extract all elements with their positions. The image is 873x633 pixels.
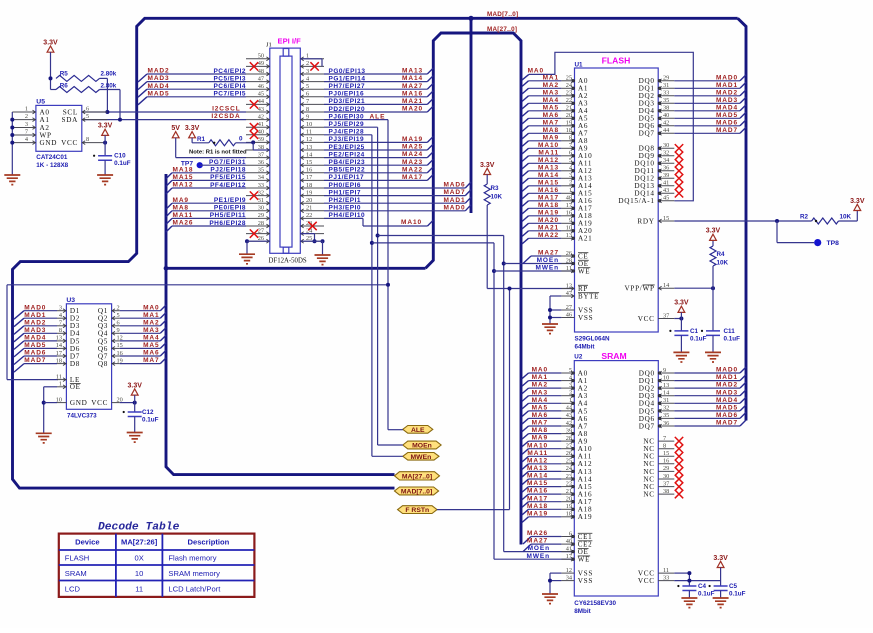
svg-text:MAD5: MAD5 — [148, 90, 170, 97]
J1 pin 36 stub — [246, 164, 270, 166]
svg-text:MA19: MA19 — [538, 209, 559, 216]
svg-text:25: 25 — [566, 458, 572, 465]
svg-text:12: 12 — [566, 282, 572, 289]
SRAM pin A3 (net MA3) — [561, 395, 574, 397]
svg-text:9: 9 — [117, 327, 120, 334]
svg-text:D8: D8 — [70, 360, 80, 368]
FLASH pin A20 (net MA21) — [561, 230, 574, 232]
capacitor C1 — [680, 319, 682, 331]
svg-text:DF12A-50DS: DF12A-50DS — [269, 258, 307, 265]
J1 pin 40 stub — [246, 134, 270, 136]
SRAM NC pin 38 — [658, 493, 674, 495]
ground under J1 right — [315, 255, 331, 265]
svg-text:17: 17 — [566, 553, 572, 560]
net label MA27 at FLASH CE + slash — [531, 255, 561, 257]
J1 pin 30 stub — [246, 210, 270, 212]
svg-text:MA2: MA2 — [532, 382, 548, 389]
svg-text:MA7: MA7 — [143, 357, 159, 364]
svg-text:43: 43 — [566, 412, 572, 419]
U3 pin Q5 (net MA4) — [112, 340, 120, 342]
svg-text:15: 15 — [306, 159, 312, 166]
SRAM pin A5 (net MA5) — [561, 410, 574, 412]
svg-text:3.3V: 3.3V — [185, 125, 200, 132]
svg-text:1: 1 — [25, 106, 28, 113]
power 3.3V at SRAM VCC — [717, 561, 724, 567]
svg-text:29: 29 — [663, 465, 669, 472]
FLASH pin A11 (net MA12) — [561, 162, 574, 164]
svg-text:MA4: MA4 — [143, 335, 159, 342]
svg-text:17: 17 — [566, 202, 572, 209]
wire net MA8 to J1 pin 30 — [166, 211, 172, 217]
svg-text:44: 44 — [663, 127, 670, 134]
svg-text:41: 41 — [566, 545, 572, 552]
wire net MA20 from J1 pin 8 to MA bus — [324, 111, 427, 113]
svg-text:VCC: VCC — [638, 577, 655, 585]
svg-text:MAD0: MAD0 — [716, 74, 738, 81]
IC U1 S29GL064N FLASH box — [575, 68, 659, 332]
svg-text:14: 14 — [663, 282, 670, 289]
junction MOEn branch — [376, 234, 380, 238]
J1 pin 1 stub — [300, 58, 324, 60]
svg-text:26: 26 — [566, 250, 572, 257]
svg-text:MA21: MA21 — [538, 224, 559, 231]
svg-text:41: 41 — [663, 180, 669, 187]
svg-text:MA13: MA13 — [402, 68, 423, 75]
wire net MA27 from J1 pin 5 to MA bus — [324, 88, 427, 90]
capacitor C5 — [714, 586, 728, 591]
svg-text:44: 44 — [566, 405, 573, 412]
wire net MAD7 from J1 pin 19 to MAD bus — [324, 195, 465, 197]
svg-text:SDA: SDA — [62, 116, 79, 124]
wire MOEn vertical from J1 pin10 to MOEn port — [377, 127, 379, 445]
wire net MAD3 to J1 pin 47 — [138, 82, 147, 90]
FLASH pin A15 (net MA16) — [561, 192, 574, 194]
wire R1 to J1 pin39 and pin38 — [236, 142, 254, 144]
junction ALE net at (388,284.8) — [386, 283, 390, 287]
svg-text:0.1uF: 0.1uF — [729, 591, 746, 598]
J1 pin 2 stub — [300, 65, 324, 67]
svg-text:0.1uF: 0.1uF — [142, 417, 159, 424]
junction R5/SCL — [105, 110, 109, 114]
svg-text:MAD0: MAD0 — [443, 204, 465, 211]
U3 pin Q4 (net MA3) — [112, 332, 120, 334]
wire net MA16 from J1 pin 6 to MA bus — [324, 96, 427, 98]
svg-text:Device: Device — [75, 538, 100, 547]
svg-text:S29GL064N: S29GL064N — [575, 336, 610, 343]
U3 OE pin — [57, 386, 66, 388]
svg-text:MA2: MA2 — [143, 319, 159, 326]
FLASH VCC pin — [658, 318, 674, 320]
svg-text:2: 2 — [569, 390, 572, 397]
SRAM pin DQ5 (net MAD5) — [658, 410, 674, 412]
J1 pin 28 stub — [246, 225, 270, 227]
FLASH pin A21 (net MA22) — [561, 237, 574, 239]
X no-connect J1 pin 49 — [250, 62, 258, 70]
FLASH pin DQ13 no-connect — [658, 185, 674, 187]
svg-text:49: 49 — [258, 60, 264, 67]
svg-text:MA16: MA16 — [527, 488, 548, 495]
U3 pin Q3 (net MA2) — [112, 325, 120, 327]
svg-text:9: 9 — [663, 367, 666, 374]
J1 pin 26 stub — [246, 240, 270, 242]
svg-text:8: 8 — [86, 136, 89, 143]
svg-text:MA17: MA17 — [527, 495, 548, 502]
J1 pin 10 stub — [300, 126, 324, 128]
svg-text:3: 3 — [25, 121, 28, 128]
svg-text:CY62158EV30: CY62158EV30 — [574, 600, 616, 607]
J1 pin 7 stub — [300, 103, 324, 105]
svg-text:GND: GND — [40, 139, 58, 147]
IC U2 CY62158EV30 SRAM box — [574, 361, 658, 596]
U3 pin D8 (net MAD7) — [57, 363, 66, 365]
wire net MAD4 to J1 pin 46 — [138, 89, 147, 97]
svg-text:20: 20 — [306, 197, 312, 204]
FLASH pin A0 (net MA1) — [561, 80, 574, 82]
SRAM pin DQ4 (net MAD4) — [658, 402, 674, 404]
svg-text:MA15: MA15 — [527, 480, 548, 487]
FLASH pin DQ4 (net MAD4) — [658, 110, 674, 112]
svg-text:21: 21 — [566, 105, 572, 112]
SRAM pin A6 (net MA6) — [561, 417, 574, 419]
junction MWEn branch — [370, 241, 374, 245]
X no-connect J1 pin 40 — [250, 131, 258, 139]
svg-text:MA13: MA13 — [538, 164, 559, 171]
FLASH pin DQ12 no-connect — [658, 177, 674, 179]
svg-text:MA27: MA27 — [527, 538, 548, 545]
wire R2 to 3.3V — [839, 220, 858, 222]
wire J1 pin26 to ground — [245, 239, 249, 243]
svg-text:3.3V: 3.3V — [713, 555, 728, 562]
svg-text:MA9: MA9 — [173, 197, 189, 204]
junction F_RSTn at RP line — [508, 287, 512, 291]
SRAM NC pin 30 — [658, 478, 674, 480]
svg-text:31: 31 — [258, 197, 264, 204]
svg-text:10: 10 — [663, 374, 669, 381]
svg-text:C10: C10 — [114, 153, 126, 160]
svg-text:MA26: MA26 — [527, 530, 548, 537]
J1 pin 34 stub — [246, 179, 270, 181]
svg-text:WE: WE — [578, 556, 590, 564]
svg-text:37: 37 — [258, 151, 264, 158]
svg-text:22: 22 — [566, 480, 572, 487]
svg-text:18: 18 — [566, 127, 572, 134]
SRAM pin A15 (net MA15) — [561, 486, 574, 488]
FLASH DQ15/A-1 pin — [658, 200, 674, 202]
svg-text:45: 45 — [663, 195, 669, 202]
wire MOEn into FLASH OE pin — [504, 263, 575, 265]
X no-connect J1 pin 32 — [250, 191, 258, 199]
svg-text:MA11: MA11 — [527, 450, 548, 457]
U3 pin Q7 (net MA6) — [112, 355, 120, 357]
svg-text:VSS: VSS — [578, 577, 593, 585]
J1 pin 37 stub — [246, 157, 270, 159]
wire J1 pin11 MWEn — [324, 134, 372, 136]
SRAM pin DQ6 (net MAD6) — [658, 417, 674, 419]
svg-text:7: 7 — [569, 142, 572, 149]
svg-text:46: 46 — [566, 311, 572, 318]
svg-text:VPP/WP: VPP/WP — [625, 285, 655, 293]
SRAM pin A19 (net MA19) — [561, 516, 574, 518]
SRAM pin VCC 33 — [658, 580, 674, 582]
svg-text:MA1: MA1 — [543, 74, 559, 81]
svg-text:MA20: MA20 — [402, 106, 423, 113]
FLASH pin DQ5 (net MAD5) — [658, 117, 674, 119]
wire ALE vertical from J1 pin9 to ALE port and U3 LE branch — [387, 120, 389, 430]
svg-text:37: 37 — [663, 312, 669, 319]
FLASH pin A9 (net MA10) — [561, 147, 574, 149]
SRAM pin A2 (net MA2) — [561, 387, 574, 389]
wire 5V to J1 pin37 — [175, 138, 177, 158]
svg-text:22: 22 — [306, 212, 312, 219]
svg-text:0: 0 — [239, 136, 243, 143]
svg-text:0.1uF: 0.1uF — [698, 591, 715, 598]
svg-text:MOEn: MOEn — [412, 443, 432, 450]
svg-text:21: 21 — [566, 488, 572, 495]
svg-text:10K: 10K — [491, 194, 503, 201]
ground C12 — [127, 433, 143, 443]
J1 pin 19 stub — [300, 195, 324, 197]
svg-text:FLASH: FLASH — [65, 554, 89, 563]
J1 pin 21 stub — [300, 210, 324, 212]
port ALE — [403, 426, 433, 434]
J1 pin 29 stub — [246, 217, 270, 219]
SRAM NC pin 29 — [658, 470, 674, 472]
svg-text:0.1uF: 0.1uF — [724, 335, 741, 342]
svg-text:MAD5: MAD5 — [24, 342, 46, 349]
svg-text:14: 14 — [663, 390, 670, 397]
wire net MAD0 from J1 pin 21 to MAD bus — [324, 210, 465, 212]
FLASH pin A4 (net MA5) — [561, 110, 574, 112]
wire J1 pin1 to pin2 — [300, 58, 322, 60]
bus MA[27..0] pi-shape over J1 and down FLASH/SRAM side — [426, 33, 522, 545]
U5 pin 7 stub — [12, 134, 36, 136]
wire R6 to SDA net — [100, 89, 121, 91]
svg-text:MOEn: MOEn — [528, 545, 550, 552]
capacitor C10 — [98, 156, 112, 161]
svg-text:19: 19 — [566, 503, 572, 510]
FLASH VPP/WP pin with R4 pullup and C11 — [658, 287, 674, 289]
svg-text:SRAM: SRAM — [601, 351, 626, 361]
svg-text:5: 5 — [569, 157, 572, 164]
svg-text:MAD7: MAD7 — [716, 127, 738, 134]
svg-text:34: 34 — [566, 574, 573, 581]
wire net MA23 from J1 pin 15 to MA bus — [324, 164, 427, 166]
SRAM pin CE1 — [561, 536, 574, 538]
svg-text:33: 33 — [663, 90, 669, 97]
wire MA10 step from J1 pin22 — [362, 218, 364, 226]
U5 pin 4 stub — [12, 142, 36, 144]
svg-text:U2: U2 — [574, 353, 583, 360]
svg-text:27: 27 — [258, 227, 264, 234]
svg-text:MA0: MA0 — [528, 67, 544, 74]
svg-text:MAD[7..0]: MAD[7..0] — [401, 489, 432, 496]
J1 pin 33 stub — [246, 187, 270, 189]
svg-text:MA5: MA5 — [543, 104, 559, 111]
ground SRAM VSS — [542, 594, 558, 604]
wire MWEn branch to FLASH/SRAM WE — [372, 242, 494, 244]
svg-text:36: 36 — [258, 159, 264, 166]
J1 pin 41 stub — [246, 126, 270, 128]
net MA0 over-route to DQ15/A-1 — [522, 74, 529, 80]
svg-text:C11: C11 — [724, 328, 736, 335]
port MOEn — [403, 441, 441, 449]
svg-text:30: 30 — [258, 205, 264, 212]
svg-text:MA21: MA21 — [402, 98, 423, 105]
svg-text:MA8: MA8 — [173, 204, 189, 211]
wire net MAD6 from J1 pin 18 to MAD bus — [324, 187, 465, 189]
svg-text:MA19: MA19 — [402, 136, 423, 143]
svg-text:38: 38 — [663, 488, 669, 495]
svg-text:41: 41 — [258, 121, 264, 128]
SRAM pin A8 (net MA8) — [561, 433, 574, 435]
FLASH pin OE — [561, 263, 574, 265]
power 3.3V at R3 — [484, 168, 491, 174]
U3 pin Q6 (net MA5) — [112, 347, 120, 349]
svg-text:32: 32 — [663, 150, 669, 157]
J1 pin 16 stub — [300, 172, 324, 174]
svg-text:18: 18 — [566, 511, 572, 518]
svg-text:17: 17 — [306, 174, 312, 181]
wire MWEn vertical from J1 pin11 to MWEn port — [371, 135, 373, 457]
svg-text:MA9: MA9 — [532, 435, 548, 442]
svg-text:MA10: MA10 — [538, 142, 559, 149]
J1 pin 48 stub — [246, 73, 270, 75]
wire net MA26 to J1 pin 28 — [166, 226, 172, 232]
FLASH pin A16 (net MA17) — [561, 200, 574, 202]
power 3.3V arrow at R1 — [189, 132, 196, 138]
svg-text:15: 15 — [663, 450, 669, 457]
svg-text:1: 1 — [59, 381, 62, 388]
FLASH pin A14 (net MA15) — [561, 185, 574, 187]
svg-text:34: 34 — [258, 174, 265, 181]
svg-text:MA12: MA12 — [538, 157, 559, 164]
svg-text:MAD6: MAD6 — [24, 350, 46, 357]
FLASH pin DQ9 no-connect — [658, 155, 674, 157]
svg-text:7: 7 — [663, 435, 666, 442]
svg-text:MWEn: MWEn — [411, 454, 432, 461]
svg-text:MOEn: MOEn — [537, 257, 559, 264]
ground C1 — [673, 352, 689, 362]
port MAD[7..0] — [395, 487, 439, 495]
svg-text:10K: 10K — [717, 260, 729, 267]
svg-text:6: 6 — [306, 91, 309, 98]
svg-text:A21: A21 — [578, 235, 592, 243]
svg-text:MA8: MA8 — [543, 127, 559, 134]
svg-text:13: 13 — [306, 144, 312, 151]
svg-text:VCC: VCC — [638, 315, 655, 323]
svg-text:MA0: MA0 — [143, 304, 159, 311]
junction at R5 — [49, 76, 53, 80]
J1 pin 3 stub — [300, 73, 324, 75]
J1 pin 13 stub — [300, 149, 324, 151]
U5 pin 6 stub — [82, 111, 108, 113]
svg-text:MAD2: MAD2 — [716, 89, 738, 96]
J1 pin 27 stub — [246, 233, 270, 235]
svg-text:3: 3 — [569, 172, 572, 179]
svg-text:MAD3: MAD3 — [148, 75, 170, 82]
U3 pin D1 (net MAD0) — [57, 310, 66, 312]
SRAM pin A16 (net MA16) — [561, 493, 574, 495]
svg-text:Flash memory: Flash memory — [168, 554, 216, 563]
FLASH pin VSS 27 — [561, 309, 574, 311]
IC U3 74LVC373 box — [66, 304, 111, 410]
svg-text:R3: R3 — [491, 185, 500, 192]
SRAM pin DQ3 (net MAD3) — [658, 395, 674, 397]
svg-text:36: 36 — [663, 420, 669, 427]
svg-text:J1: J1 — [266, 42, 272, 49]
svg-text:MAD4: MAD4 — [148, 83, 170, 90]
svg-text:MA8: MA8 — [532, 427, 548, 434]
svg-text:3.3V: 3.3V — [98, 123, 113, 130]
svg-text:MA15: MA15 — [538, 179, 559, 186]
wire R3 pullup on F_RSTn — [486, 205, 488, 289]
svg-text:SRAM: SRAM — [65, 569, 87, 578]
svg-text:7: 7 — [25, 129, 28, 136]
svg-text:R2: R2 — [800, 213, 809, 220]
ground U5 inputs — [4, 175, 20, 185]
wire I2CSDA from U5 SDA to J1 pin42 — [82, 119, 246, 121]
X no-connect J1 pin 44 — [250, 100, 258, 108]
svg-text:40: 40 — [566, 538, 572, 545]
SRAM pin A9 (net MA9) — [561, 440, 574, 442]
bus MAD[7..0] right vertical (to FLASH/SRAM DQ) — [738, 18, 746, 420]
svg-text:39: 39 — [663, 172, 669, 179]
SRAM pin A17 (net MA17) — [561, 501, 574, 503]
SRAM NC pin 16 — [658, 463, 674, 465]
J1 pin 46 stub — [246, 88, 270, 90]
U5 pin 1 stub — [12, 111, 36, 113]
svg-text:DQ15/A-1: DQ15/A-1 — [618, 197, 654, 205]
J1 pin 17 stub — [300, 179, 324, 181]
wire net MA22 from J1 pin 16 to MA bus — [324, 172, 427, 174]
svg-text:16: 16 — [566, 210, 572, 217]
svg-text:R1: R1 — [197, 136, 206, 143]
svg-text:1: 1 — [569, 187, 572, 194]
FLASH RDY pin with R2 pullup and TP8 — [658, 220, 674, 222]
svg-text:MA2: MA2 — [543, 82, 559, 89]
SRAM pin OE — [561, 551, 574, 553]
FLASH pin A19 (net MA20) — [561, 222, 574, 224]
wire MOEn branch to FLASH/SRAM OE — [378, 235, 504, 237]
FLASH pin VSS 46 — [561, 317, 574, 319]
X no-connect J1 pin 27 — [250, 229, 258, 237]
svg-text:MAD2: MAD2 — [24, 319, 46, 326]
SRAM pin A7 (net MA7) — [561, 425, 574, 427]
svg-text:MAD7: MAD7 — [716, 420, 738, 427]
wire J1 pins 24/25 to ground — [300, 233, 314, 235]
svg-text:NC: NC — [643, 491, 654, 499]
svg-text:MA7: MA7 — [532, 420, 548, 427]
svg-text:12: 12 — [306, 136, 312, 143]
svg-text:MA1: MA1 — [532, 374, 548, 381]
svg-text:MAD4: MAD4 — [24, 335, 46, 342]
U5 address/WP/GND strapping to ground — [11, 112, 13, 175]
svg-text:12: 12 — [566, 567, 572, 574]
svg-text:0.1uF: 0.1uF — [690, 335, 707, 342]
svg-text:MA24: MA24 — [402, 151, 423, 158]
J1 pin 18 stub — [300, 187, 324, 189]
svg-text:CAT24C01: CAT24C01 — [36, 154, 68, 161]
svg-text:38: 38 — [663, 105, 669, 112]
svg-text:19: 19 — [566, 120, 572, 127]
svg-text:24: 24 — [566, 465, 573, 472]
svg-text:MA13: MA13 — [527, 465, 548, 472]
FLASH pin A3 (net MA4) — [561, 102, 574, 104]
power 3.3V at FLASH VCC — [678, 306, 685, 312]
slash MA10 to MA bus — [428, 220, 434, 226]
svg-text:2.80k: 2.80k — [101, 71, 117, 78]
FLASH pin DQ10 no-connect — [658, 162, 674, 164]
